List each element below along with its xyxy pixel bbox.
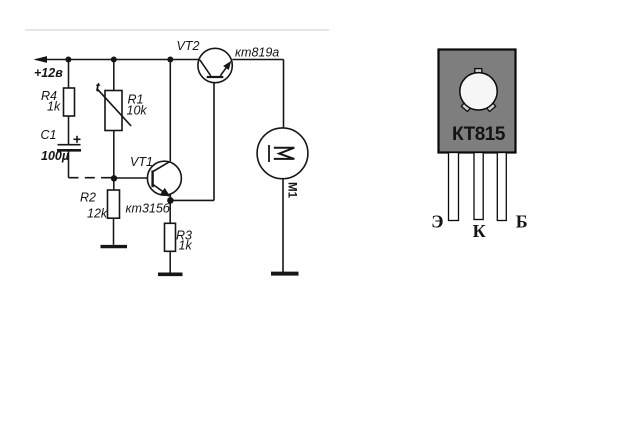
svg-text:R2: R2	[80, 190, 96, 204]
ground under R2	[101, 245, 128, 248]
wire R3 to ground	[169, 251, 171, 272]
svg-text:10k: 10k	[127, 104, 148, 118]
motor M1	[257, 128, 308, 179]
svg-text:М1: М1	[286, 182, 298, 199]
wire rail to R1	[113, 60, 115, 91]
package mounting tab top	[475, 69, 482, 74]
svg-text:100µ: 100µ	[41, 149, 69, 163]
package leg base	[497, 153, 506, 221]
svg-text:Б: Б	[516, 212, 528, 232]
wire emitter node to VT2 base	[170, 78, 214, 200]
ground under motor	[271, 272, 299, 276]
svg-text:VT1: VT1	[130, 155, 153, 169]
transistor VT2	[198, 48, 232, 82]
wire VT2 emitter to motor	[232, 60, 283, 129]
svg-text:12k: 12k	[87, 206, 108, 220]
thermistor R1	[97, 89, 131, 131]
node junction on rail at R1	[111, 57, 117, 63]
package notch lower right	[486, 103, 495, 112]
wire dashed C1 to divider node	[69, 177, 113, 179]
node junction on rail at VT1 collector	[167, 57, 173, 63]
svg-text:+12в: +12в	[34, 66, 63, 80]
package leg emitter	[449, 153, 459, 221]
package hole circle	[460, 73, 497, 110]
package notch lower left	[461, 103, 470, 112]
svg-text:Э: Э	[431, 212, 443, 232]
transistor VT1	[147, 161, 181, 197]
svg-text:1k: 1k	[47, 100, 61, 114]
capacitor C1	[57, 136, 81, 151]
wire R4 to C1	[68, 116, 70, 144]
node VT1 emitter junction	[167, 197, 174, 204]
svg-text:C1: C1	[41, 128, 57, 142]
wire motor to ground	[282, 179, 284, 272]
wire divider node to VT1 base	[114, 177, 152, 179]
wire emitter node to R3	[169, 200, 171, 223]
wire C1 down	[68, 152, 70, 178]
svg-text:VT2: VT2	[177, 39, 200, 53]
ground under R3	[158, 272, 183, 276]
resistor R2	[108, 190, 120, 218]
transistor package KT815 body	[439, 50, 516, 153]
wire R1 to divider node and R2	[113, 131, 115, 191]
svg-text:1k: 1k	[179, 238, 193, 252]
svg-text:К: К	[473, 221, 486, 241]
node divider junction	[111, 175, 117, 181]
svg-text:кт315б: кт315б	[126, 202, 171, 216]
resistor R3	[165, 223, 176, 251]
wire rail to R4	[68, 60, 70, 89]
svg-text:t: t	[96, 80, 101, 95]
wire top +12V rail	[34, 56, 200, 63]
wire VT1 emitter to circle bottom	[169, 194, 171, 200]
svg-text:КТ815: КТ815	[452, 124, 506, 145]
package leg collector	[474, 153, 483, 220]
node junction on rail at R4	[65, 57, 71, 63]
wire VT1 collector to rail	[169, 60, 171, 162]
svg-text:кт819а: кт819а	[235, 46, 279, 60]
resistor R4	[64, 88, 75, 116]
wire R2 to ground	[113, 218, 115, 245]
